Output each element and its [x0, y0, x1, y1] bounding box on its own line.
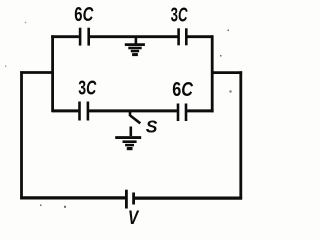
wire middle-left segment — [53, 109, 79, 112]
capacitor C3 3C (middle-left) — [80, 102, 88, 121]
wire bottom-left segment — [20, 196, 125, 199]
capacitor C4 6C (middle-right) — [178, 104, 186, 122]
wire left connector — [20, 71, 52, 74]
wire right outer vertical — [239, 71, 242, 199]
wire right connector — [212, 71, 242, 74]
ground under switch — [115, 138, 141, 149]
switch S — [130, 111, 140, 136]
svg-text:6C: 6C — [74, 4, 93, 26]
capacitor C1 6C (top-left) — [80, 28, 89, 46]
svg-text:V: V — [128, 207, 140, 228]
speck dots (scan artifacts) — [5, 22, 232, 208]
capacitor C2 3C (top-right) — [179, 28, 187, 45]
ground top — [125, 36, 145, 55]
wire inner-right vertical — [211, 35, 214, 112]
wire top-middle segment — [90, 35, 178, 38]
wire middle-center segment — [89, 109, 177, 112]
svg-text:3C: 3C — [171, 5, 188, 27]
wire left outer vertical — [20, 71, 23, 199]
wire bottom-right segment — [135, 197, 242, 200]
svg-text:6C: 6C — [172, 79, 193, 101]
wire middle-right segment — [187, 109, 214, 112]
wire top-left segment — [51, 35, 79, 38]
svg-text:S: S — [146, 117, 158, 137]
svg-text:3C: 3C — [78, 78, 96, 100]
battery V — [126, 190, 133, 209]
wire inner-left vertical — [51, 35, 54, 112]
wire top-right segment — [187, 35, 213, 38]
